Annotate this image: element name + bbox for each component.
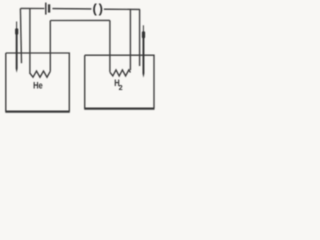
electrode left level tick [14, 43, 16, 45]
wire inner-right vertical [109, 20, 111, 72]
label H2 [114, 78, 122, 93]
resistor/filament right (in H2 container) [110, 70, 130, 76]
wire top-right segment [104, 8, 140, 10]
electrode right level tick [146, 45, 150, 47]
resistor/filament left (in He container) [30, 71, 50, 77]
wire left outer vertical [20, 8, 21, 63]
container left (He vessel) [6, 53, 70, 112]
electrode left (pen shaped) [15, 22, 18, 73]
wire junction vertical right (top wire to H2 filament) [129, 9, 131, 70]
wire junction vertical left (top wire to He filament) [29, 8, 31, 74]
wire inner-left vertical [49, 21, 51, 72]
wire inner horizontal (second wire) [50, 19, 110, 21]
battery B1 short thick plate [48, 4, 50, 12]
svg-text:(: ( [93, 1, 98, 16]
switch key S1 "( )" in top wire [93, 1, 103, 16]
container left bottom (thick) [5, 110, 70, 112]
wire top-middle segment [52, 8, 91, 10]
container right bottom (thick) [84, 107, 154, 109]
wire right outer vertical [139, 9, 141, 66]
battery B1 long plate [45, 3, 47, 15]
container right (H2 vessel) [85, 55, 154, 108]
wire top-left segment [21, 7, 45, 9]
svg-text:): ) [99, 1, 103, 16]
svg-text:He: He [33, 80, 43, 91]
label He [33, 80, 43, 91]
svg-text:2: 2 [119, 83, 123, 92]
electrode right (pen shaped) [142, 25, 145, 77]
